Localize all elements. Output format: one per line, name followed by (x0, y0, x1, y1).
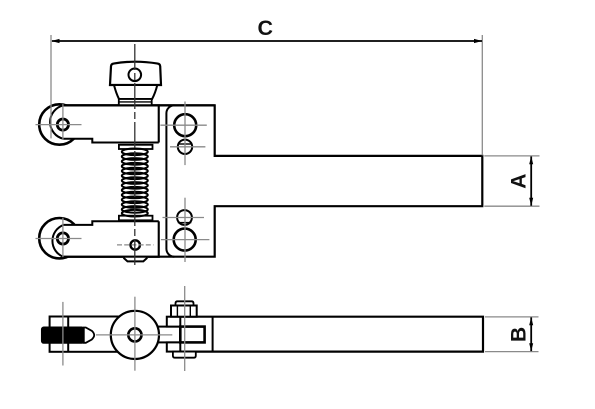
svg-text:A: A (507, 174, 530, 189)
svg-text:C: C (258, 16, 274, 40)
svg-text:B: B (507, 327, 530, 342)
